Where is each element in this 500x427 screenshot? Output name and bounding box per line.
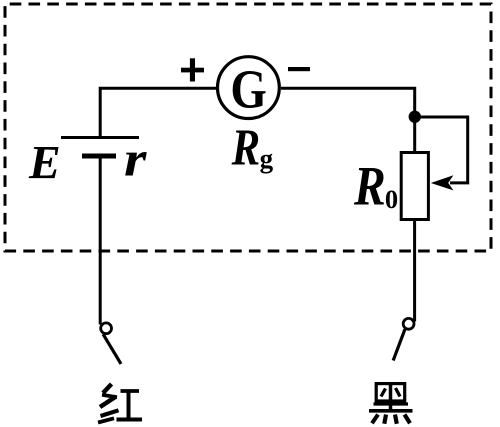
wire battery-top to galvanometer plus lead	[100, 88, 217, 138]
svg-text:r: r	[124, 131, 147, 187]
rheostat arrow head	[431, 175, 454, 190]
svg-text:g: g	[260, 144, 274, 174]
svg-text:R: R	[353, 156, 386, 217]
black probe slanted lead	[393, 329, 405, 360]
minus sign	[288, 67, 310, 71]
red probe terminal circle	[101, 323, 112, 334]
battery E long positive plate	[61, 136, 139, 139]
red probe slanted lead	[103, 334, 121, 364]
wire battery negative down to red probe	[99, 156, 102, 325]
label hong (red) drawn glyph	[98, 384, 142, 423]
black probe terminal circle	[403, 318, 414, 329]
svg-text:R: R	[231, 120, 260, 177]
dashed enclosure box	[5, 4, 491, 251]
rheostat R0 body	[401, 153, 428, 220]
svg-text:E: E	[28, 138, 61, 190]
wire galvanometer minus lead to right branch top	[281, 88, 415, 152]
svg-text:G: G	[230, 59, 266, 120]
galvanometer G circle	[218, 57, 280, 119]
wire slider arm from node to arrow	[415, 117, 468, 183]
label hei (black) drawn glyph	[369, 383, 413, 424]
node junction dot	[409, 111, 421, 123]
battery E short negative plate	[82, 154, 116, 159]
svg-text:0: 0	[385, 184, 398, 214]
plus sign	[181, 58, 204, 81]
wire resistor bottom down to black probe	[413, 220, 416, 322]
